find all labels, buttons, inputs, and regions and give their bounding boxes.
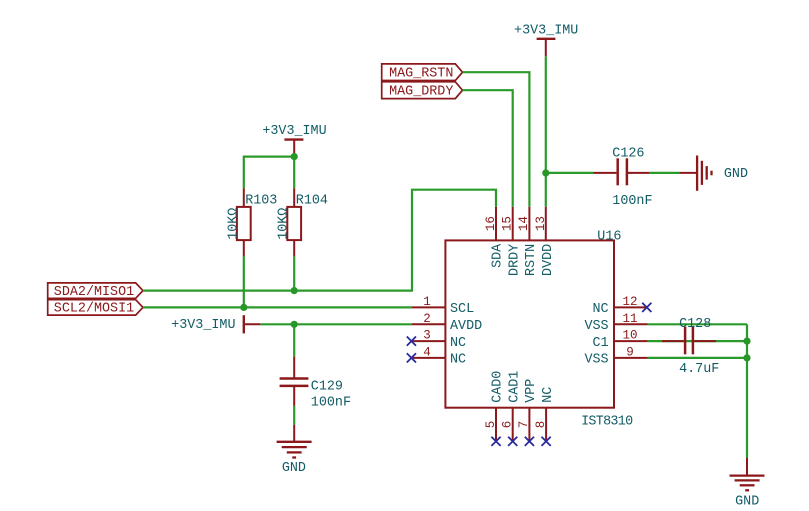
wire MAG_DRDY to pin15: [463, 90, 513, 207]
junction AVDD/C129: [291, 321, 298, 328]
pin 1 SCL: [412, 295, 474, 317]
pin 6 CAD1: [501, 371, 523, 442]
power +3V3_IMU (left, AVDD): [171, 315, 260, 333]
junction at +3V3/R103/R104: [291, 153, 298, 160]
svg-text:GND: GND: [724, 167, 748, 182]
svg-text:9: 9: [626, 345, 634, 359]
pin 5 CAD0: [484, 371, 506, 442]
no-connect pin 3: [407, 337, 416, 346]
svg-text:+3V3_IMU: +3V3_IMU: [514, 23, 578, 38]
junction pin9/right bus: [743, 354, 750, 361]
pin 16 SDA: [484, 207, 506, 268]
resistor R104: [277, 188, 328, 256]
svg-text:2: 2: [423, 312, 431, 326]
svg-text:GND: GND: [282, 461, 306, 476]
svg-text:MAG_DRDY: MAG_DRDY: [389, 85, 453, 100]
svg-text:MAG_RSTN: MAG_RSTN: [389, 67, 453, 82]
wire SDA2/MISO1 to pin16 SDA: [143, 190, 496, 291]
global label SDA2/MISO1: [48, 283, 143, 300]
svg-text:NC: NC: [541, 387, 556, 403]
svg-text:8: 8: [534, 421, 548, 429]
capacitor C128: [662, 317, 719, 377]
junction R104/SDA net: [291, 287, 298, 294]
svg-text:C126: C126: [612, 146, 644, 161]
wire C126 to GND: [650, 172, 680, 174]
svg-text:R103: R103: [245, 193, 277, 208]
power +3V3_IMU (above R103/R104): [262, 124, 326, 156]
svg-text:100nF: 100nF: [311, 395, 351, 410]
global label MAG_RSTN: [382, 64, 463, 82]
svg-text:10: 10: [622, 329, 637, 343]
wire R103 bottom to SCL net: [243, 256, 245, 307]
svg-text:NC: NC: [593, 302, 609, 317]
svg-text:15: 15: [501, 216, 515, 231]
svg-text:+3V3_IMU: +3V3_IMU: [171, 318, 235, 333]
svg-text:NC: NC: [450, 336, 466, 351]
wire pin10 C1 to C128: [648, 340, 747, 342]
ground GND (bottom right): [730, 458, 765, 509]
wire +3V3_IMU to R103/R104 tops: [244, 157, 294, 189]
ground GND (right of C126): [679, 156, 748, 191]
svg-text:RSTN: RSTN: [524, 244, 539, 276]
no-connect pin 5: [491, 437, 500, 446]
svg-text:10KΩ: 10KΩ: [277, 208, 292, 240]
svg-text:6: 6: [501, 421, 515, 429]
svg-text:CAD0: CAD0: [491, 371, 506, 403]
svg-text:3: 3: [423, 329, 431, 343]
pin 2 AVDD: [412, 312, 482, 334]
svg-text:14: 14: [517, 216, 531, 231]
svg-text:SCL2/MOSI1: SCL2/MOSI1: [54, 302, 134, 317]
svg-text:SCL: SCL: [450, 302, 474, 317]
junction R103/SCL net: [240, 304, 247, 311]
wire MAG_RSTN to pin14: [463, 72, 530, 207]
wire pin9 VSS to right bus: [648, 357, 747, 359]
global label MAG_DRDY: [382, 82, 463, 100]
svg-text:DVDD: DVDD: [541, 244, 556, 276]
pin 9 VSS: [584, 345, 647, 367]
svg-text:R104: R104: [296, 193, 328, 208]
svg-text:11: 11: [622, 312, 637, 326]
power +3V3_IMU (top right, DVDD): [514, 23, 578, 56]
pin 10 C1: [593, 329, 648, 351]
pin 11 VSS: [584, 312, 647, 334]
pin 7 VPP: [517, 379, 539, 442]
svg-text:DRDY: DRDY: [507, 244, 522, 276]
svg-text:100nF: 100nF: [612, 194, 652, 209]
svg-text:SDA: SDA: [491, 243, 506, 268]
pin 4 NC: [412, 345, 466, 367]
pin 13 DVDD: [534, 207, 556, 276]
svg-text:C129: C129: [311, 379, 343, 394]
junction DVDD/C126: [542, 169, 549, 176]
svg-text:16: 16: [484, 216, 498, 231]
svg-text:U16: U16: [597, 229, 621, 244]
pin 3 NC: [412, 329, 466, 351]
no-connect pin 6: [508, 437, 517, 446]
no-connect pin 7: [525, 437, 534, 446]
svg-text:VSS: VSS: [584, 353, 608, 368]
svg-text:IST8310: IST8310: [581, 415, 633, 430]
svg-text:VSS: VSS: [584, 319, 608, 334]
svg-text:+3V3_IMU: +3V3_IMU: [262, 124, 326, 139]
svg-text:C1: C1: [593, 336, 609, 351]
svg-text:AVDD: AVDD: [450, 319, 482, 334]
ground GND (below C129): [277, 425, 312, 476]
wire +3V3_IMU to pin2 AVDD: [260, 323, 412, 325]
svg-text:VPP: VPP: [524, 379, 539, 403]
svg-text:13: 13: [534, 216, 548, 231]
wire right bus down to GND: [746, 324, 748, 458]
svg-text:10KΩ: 10KΩ: [226, 208, 241, 240]
svg-text:NC: NC: [450, 353, 466, 368]
wire SCL2/MOSI1 to pin1 SCL: [143, 306, 412, 308]
wire +3V3_IMU to pin13 DVDD: [545, 56, 547, 207]
resistor R103: [226, 188, 277, 256]
svg-text:SDA2/MISO1: SDA2/MISO1: [54, 285, 134, 300]
wire DVDD to C126: [546, 172, 594, 174]
svg-text:C128: C128: [679, 317, 711, 332]
svg-text:1: 1: [423, 295, 431, 309]
pin 12 NC: [593, 295, 648, 317]
pin 14 RSTN: [517, 207, 539, 276]
svg-text:CAD1: CAD1: [507, 371, 522, 403]
no-connect pin 8: [542, 437, 551, 446]
pin 15 DRDY: [501, 207, 523, 276]
svg-text:GND: GND: [735, 494, 759, 509]
pin 8 NC: [534, 387, 556, 442]
capacitor C126: [594, 146, 653, 209]
no-connect pin 4: [407, 353, 416, 362]
svg-text:4.7uF: 4.7uF: [679, 362, 719, 377]
no-connect pin 12: [642, 303, 651, 312]
wire AVDD to C129: [293, 324, 295, 356]
capacitor C129: [280, 357, 351, 411]
global label SCL2/MOSI1: [48, 300, 143, 317]
svg-text:7: 7: [517, 421, 531, 429]
wire C129 bottom to GND: [293, 406, 295, 425]
svg-text:12: 12: [622, 295, 637, 309]
IC U16 IST8310 body: [445, 229, 633, 429]
junction C128/right bus: [743, 338, 750, 345]
svg-text:4: 4: [423, 345, 431, 359]
svg-text:5: 5: [484, 421, 498, 429]
wire R104 bottom to SDA net: [293, 256, 295, 290]
wire pin11 VSS to right bus: [648, 323, 747, 325]
